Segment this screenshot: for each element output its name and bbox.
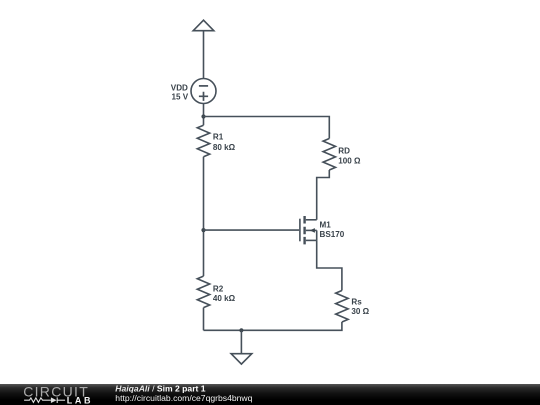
wire: RD bottom to drain bbox=[317, 170, 330, 220]
wire: source to Rs top bbox=[317, 240, 342, 290]
junction dot ground node bbox=[239, 328, 243, 332]
voltage source minus sign bbox=[199, 85, 208, 87]
svg-text:LAB: LAB bbox=[67, 395, 93, 405]
resistor R2 bbox=[197, 276, 209, 308]
logo waveform bbox=[24, 397, 65, 403]
junction dot top node bbox=[201, 114, 205, 118]
footer bar bbox=[0, 384, 540, 405]
junction dot gate node bbox=[201, 228, 205, 232]
wire: R1 bottom to R2 top bbox=[203, 157, 205, 276]
wire: Rs bottom to ground rail bbox=[204, 322, 342, 330]
transistor M1 drain connect bbox=[306, 219, 317, 221]
wire: top node to RD branch bbox=[204, 117, 330, 139]
ground bbox=[231, 330, 252, 364]
wire: R2 bottom to ground rail bbox=[203, 308, 205, 331]
voltage source plus sign bbox=[199, 92, 208, 101]
svg-text:http://circuitlab.com/ce7qgrbs: http://circuitlab.com/ce7qgrbs4bnwq bbox=[115, 393, 252, 403]
transistor M1 body-source tie bbox=[316, 230, 318, 240]
transistor M1 body line bbox=[306, 229, 317, 231]
voltage source VDD circle bbox=[191, 79, 216, 104]
transistor M1 body arrow bbox=[310, 228, 315, 233]
transistor M1 gate bar bbox=[299, 219, 301, 242]
power flag VDD bbox=[193, 20, 214, 31]
resistor R1 bbox=[197, 125, 209, 157]
resistor Rs bbox=[336, 291, 348, 323]
transistor M1 channel bars bbox=[303, 216, 305, 244]
wire: VDD flag to source top bbox=[203, 31, 205, 79]
svg-text:HaiqaAli / Sim 2 part 1: HaiqaAli / Sim 2 part 1 bbox=[115, 383, 206, 393]
wire: gate bbox=[204, 229, 300, 231]
wire: source bottom to node bbox=[203, 104, 205, 126]
resistor RD bbox=[323, 139, 335, 171]
transistor M1 source connect bbox=[306, 239, 317, 241]
